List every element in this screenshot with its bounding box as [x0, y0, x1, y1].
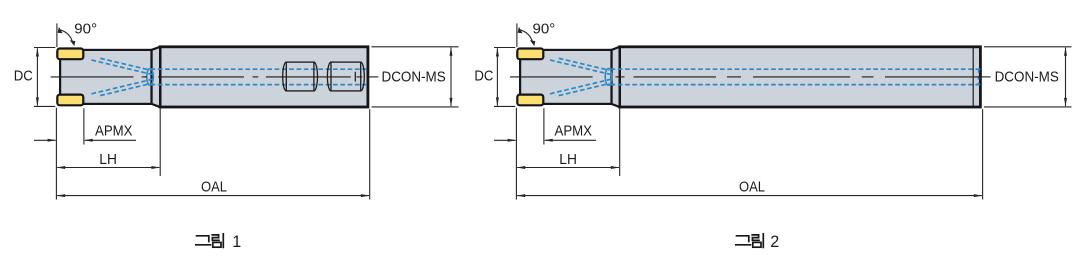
dimension APMX F1 — [34, 108, 136, 144]
svg-text:2: 2 — [770, 233, 779, 251]
bore cone ellipse F1 — [147, 69, 154, 86]
cutter head F1 — [60, 50, 151, 104]
svg-text:DCON-MS: DCON-MS — [382, 68, 446, 85]
bore end hidden line F2 — [978, 69, 980, 84]
hidden cutting-edge line upper-outer F1 — [100, 58, 150, 70]
bore hidden line top F2 — [611, 68, 981, 70]
hangul rim — [752, 235, 759, 240]
dimension LH F1 — [57, 108, 160, 176]
svg-text:OAL: OAL — [201, 178, 227, 195]
hidden cutting-edge line upper-inner F2 — [550, 60, 611, 75]
dimension DCON-MS F1 — [372, 47, 459, 107]
90 degree arc F2 — [520, 30, 533, 44]
90 degree reference line F2 — [516, 23, 518, 47]
shank body F2 — [620, 47, 981, 107]
svg-text:APMX: APMX — [555, 123, 593, 140]
insert bottom F2 — [517, 95, 543, 106]
bore hidden line bottom F2 — [611, 84, 981, 86]
center line F1 — [51, 76, 379, 78]
bore hidden line bottom F1 — [151, 84, 369, 86]
caption figure 2 (Korean: geurim 2) — [736, 234, 764, 248]
dimension DC F2 — [494, 48, 515, 107]
svg-text:DCON-MS: DCON-MS — [995, 68, 1059, 85]
90 degree arc F1 — [60, 30, 73, 44]
hangul rim — [212, 235, 219, 240]
pilot hole end tick F1 — [354, 72, 356, 82]
caption figure 1 (Korean: geurim 1) — [196, 234, 224, 248]
hidden cutting-edge line lower-inner F1 — [92, 79, 153, 94]
hidden cutting-edge line upper-outer F2 — [559, 58, 609, 70]
svg-text:90°: 90° — [74, 21, 97, 38]
hangul geu — [197, 236, 209, 242]
dimension OAL F1 — [56, 108, 369, 200]
insert top F2 — [517, 49, 543, 60]
svg-text:OAL: OAL — [739, 178, 765, 195]
hidden cutting-edge line upper-inner F1 — [92, 60, 153, 75]
shoulder neck F2 — [612, 47, 620, 107]
svg-text:LH: LH — [559, 151, 577, 168]
90 degree reference line F1 — [56, 23, 58, 47]
shoulder neck F1 — [152, 47, 161, 107]
bore cone ellipse F2 — [605, 69, 612, 86]
svg-text:APMX: APMX — [95, 123, 133, 140]
shank body F1 — [160, 47, 368, 107]
hidden cutting-edge line lower-outer F2 — [559, 84, 609, 96]
svg-text:DC: DC — [474, 67, 493, 84]
end face inner line F2 — [972, 48, 974, 107]
insert bottom F1 — [57, 95, 83, 106]
dimension APMX F2 — [494, 108, 596, 144]
insert top F1 — [57, 49, 83, 60]
dimension DC F1 — [34, 48, 55, 107]
svg-text:1: 1 — [232, 233, 241, 251]
cutter head F2 — [520, 50, 611, 104]
hidden cutting-edge line lower-outer F1 — [100, 84, 150, 96]
svg-text:90°: 90° — [533, 21, 556, 38]
svg-text:DC: DC — [14, 67, 33, 84]
hidden cutting-edge line lower-inner F2 — [550, 79, 611, 94]
dimension DCON-MS F2 — [984, 47, 1072, 107]
wrench flat barrel 1 F1 — [283, 62, 318, 91]
bore hidden line top F1 — [151, 68, 369, 70]
svg-text:LH: LH — [99, 151, 117, 168]
hangul geu — [737, 236, 749, 242]
center line F2 — [510, 76, 991, 78]
dimension OAL F2 — [516, 108, 982, 200]
dimension LH F2 — [517, 108, 620, 176]
wrench flat barrel 2 F1 — [327, 62, 364, 91]
